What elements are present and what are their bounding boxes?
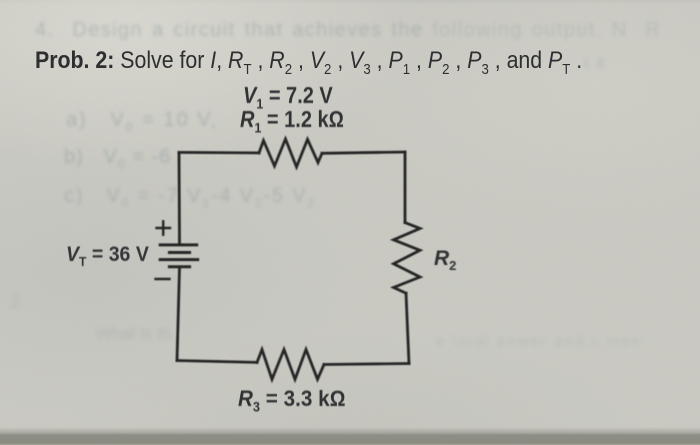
resistor R1	[259, 139, 322, 167]
polarity minus sign	[156, 278, 170, 280]
ghost smudge right of title	[584, 55, 605, 72]
resistor R3	[257, 350, 324, 380]
wire bottom-right corner to R3	[324, 364, 409, 365]
wire right: corner down to R2	[404, 152, 407, 223]
ghost line a) V0 = 10 V	[66, 109, 218, 132]
value label VT = 36 V	[66, 243, 149, 267]
wire R3 to bottom-left corner	[177, 361, 257, 363]
ghost smudge right of bottom wire	[436, 333, 642, 350]
value label R2	[434, 247, 456, 271]
value label V1 = 7.2 V	[243, 82, 333, 109]
battery VT plate long top	[160, 243, 197, 246]
battery VT plate short bottom	[169, 265, 189, 268]
ghost line c) V0 = -7 V1 -4 V2 -5 V2	[64, 185, 316, 208]
wire left: bottom corner up to battery bottom	[177, 268, 180, 361]
desk edge strip at bottom	[0, 427, 700, 445]
ghost smudge "What" bottom left	[96, 324, 172, 344]
wire top-left to R1	[179, 151, 259, 154]
ghost line b) V0 = -	[64, 146, 171, 169]
battery VT plate short	[169, 251, 189, 254]
ghost smudge left margin "2"	[10, 292, 25, 313]
battery VT plate long	[160, 258, 198, 261]
problem title	[35, 47, 582, 75]
polarity plus sign	[157, 221, 171, 234]
resistor R2	[394, 223, 420, 294]
wire R2 to bottom-right corner	[406, 293, 409, 363]
value label R1 = 1.2 kOhm	[240, 106, 344, 133]
wire left: battery top up to top-left corner	[178, 152, 181, 243]
wire R1 to top-right corner	[322, 152, 405, 153]
ghost heading (bleed-through): 4. Design a circuit that achieves the following output	[35, 19, 661, 42]
value label R3 = 3.3 kOhm	[238, 386, 346, 412]
